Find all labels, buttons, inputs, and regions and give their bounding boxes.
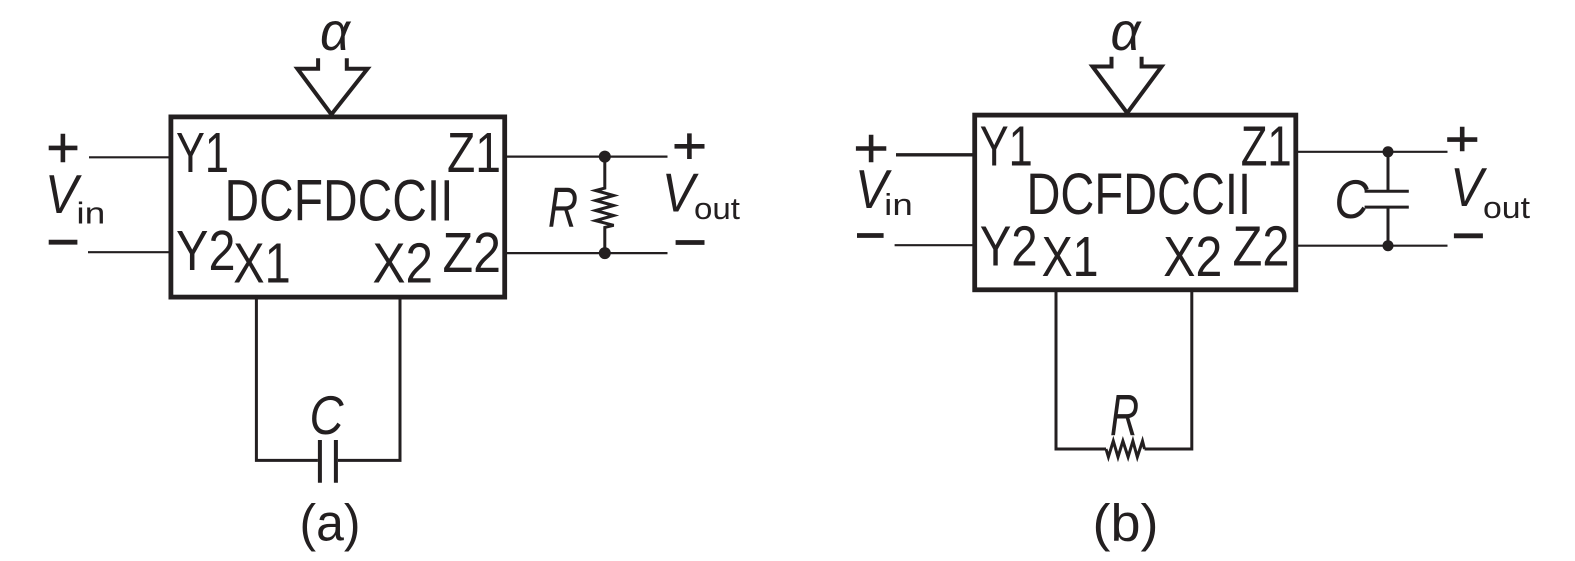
wire X2 to capacitor (a) [338,297,400,460]
svg-text:in: in [884,187,913,222]
DCFDCCII block (b) [975,115,1296,290]
svg-text:R: R [1110,383,1139,448]
minus sign Vin (b) [857,233,884,238]
resistor R (a) [596,157,614,254]
svg-text:Y2: Y2 [176,219,236,283]
minus sign Vin (a) [49,240,78,245]
plus sign Vin (b) [856,135,886,163]
svg-text:α: α [320,2,352,62]
svg-text:out: out [1483,190,1530,225]
svg-text:Z2: Z2 [443,221,502,285]
svg-text:Z1: Z1 [447,121,501,185]
svg-text:Y1: Y1 [980,115,1033,179]
minus sign Vout (a) [676,240,705,245]
wire X2 to resistor (b) [1145,290,1192,449]
junction node top (a) [599,151,611,163]
svg-text:X2: X2 [373,232,434,296]
alpha arrow (a) [297,58,367,114]
wire Y2 input (b) [895,244,975,246]
svg-text:R: R [548,176,578,240]
capacitor C (b) [1365,152,1409,246]
capacitor C (a) [320,440,336,483]
svg-text:C: C [1335,168,1370,230]
svg-text:X1: X1 [1042,225,1099,289]
svg-text:α: α [1111,2,1143,62]
wire Z2 output (a) [505,252,668,254]
plus sign Vout (b) [1447,127,1477,152]
svg-text:DCFDCCII: DCFDCCII [1027,162,1252,227]
svg-text:DCFDCCII: DCFDCCII [225,169,454,234]
DCFDCCII block (a) [171,117,505,297]
svg-text:Y2: Y2 [980,215,1038,279]
svg-text:(b): (b) [1093,495,1159,553]
svg-text:C: C [310,384,345,446]
svg-text:Y1: Y1 [176,121,229,185]
wire Y1 input (b) [896,153,975,156]
wire X1 to capacitor (a) [256,297,318,460]
wire Z1 output (b) [1296,151,1448,153]
svg-text:Z2: Z2 [1233,215,1290,279]
wire Z2 output (b) [1296,245,1448,247]
junction node bottom (a) [599,247,611,259]
svg-text:out: out [694,191,740,226]
plus sign Vin (a) [49,134,78,163]
wire Y2 input (a) [88,251,171,253]
minus sign Vout (b) [1454,233,1483,238]
svg-text:in: in [76,196,105,231]
wire Z1 output (a) [505,156,668,158]
plus sign Vout (a) [675,133,705,159]
junction node top (b) [1383,146,1394,157]
svg-text:(a): (a) [300,495,361,553]
junction node bottom (b) [1383,240,1394,251]
svg-text:X2: X2 [1163,225,1222,289]
alpha arrow (b) [1093,57,1162,113]
wire Y1 input (a) [89,156,171,158]
svg-text:V: V [1450,156,1487,218]
svg-text:X1: X1 [233,232,290,296]
resistor R (b) [1106,441,1145,457]
wire X1 to resistor (b) [1056,290,1106,449]
